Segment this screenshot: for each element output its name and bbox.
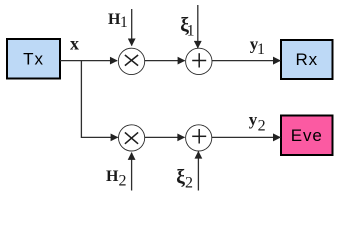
svg-text:Tx: Tx (23, 50, 44, 69)
svg-text:ξ2: ξ2 (176, 167, 193, 192)
svg-text:y2: y2 (249, 110, 266, 135)
svg-text:H2: H2 (106, 168, 126, 190)
svg-text:H1: H1 (108, 11, 128, 31)
svg-text:ξ1: ξ1 (180, 15, 194, 40)
svg-text:Rx: Rx (296, 50, 319, 69)
svg-text:Eve: Eve (291, 126, 323, 145)
svg-text:y1: y1 (250, 35, 265, 59)
svg-text:x: x (70, 34, 79, 54)
